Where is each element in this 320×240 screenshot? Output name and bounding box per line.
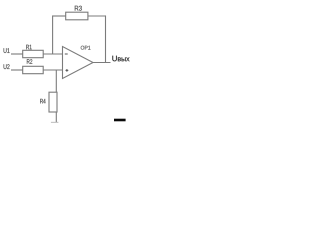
label R1 xyxy=(26,45,31,50)
label R2 xyxy=(27,59,32,64)
wire R2 to op-amp non-inverting input xyxy=(43,69,63,71)
op-amp OP1 triangle xyxy=(63,47,94,79)
wire U2 to R2 xyxy=(11,69,23,71)
wire R1 to op-amp inverting input xyxy=(43,53,63,55)
wire left feedback vertical xyxy=(52,15,54,54)
resistor R1 xyxy=(23,50,44,57)
label OP1 xyxy=(81,46,91,50)
op-amp non-inverting input plus sign xyxy=(66,69,69,72)
wire branch down to R4 xyxy=(55,70,57,92)
wire right feedback vertical xyxy=(105,15,107,62)
wire op-amp output xyxy=(93,62,111,64)
node Uвых output label xyxy=(112,56,129,62)
label R4 xyxy=(40,99,45,104)
wire U1 to R1 xyxy=(11,53,23,55)
node U1 input label xyxy=(4,48,10,53)
resistor R4 xyxy=(49,92,57,112)
resistor R3 xyxy=(66,12,88,20)
resistor R2 xyxy=(23,66,44,73)
black bar bottom right xyxy=(114,119,126,122)
wire top feedback left segment xyxy=(53,15,66,17)
ground xyxy=(51,121,59,123)
wire top feedback right segment xyxy=(88,15,106,17)
wire R4 to ground xyxy=(55,112,57,122)
op-amp inverting input minus sign xyxy=(65,53,68,55)
node U2 input label xyxy=(4,64,10,69)
label R3 xyxy=(75,6,82,11)
